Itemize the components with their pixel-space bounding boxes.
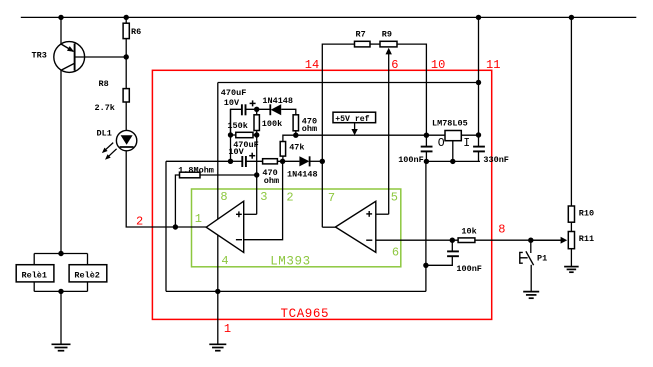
wire cap C1 left lead: [231, 109, 242, 135]
wire P1 top lead: [530, 240, 532, 253]
op-amp U1B (LM393 2nd): [335, 201, 375, 252]
wire caps bottom tee: [426, 160, 480, 162]
wire DL1 to pin 2: [126, 151, 206, 227]
node collector / relays top: [58, 251, 63, 256]
wire reference row: [166, 160, 231, 162]
svg-text:1: 1: [224, 322, 231, 336]
svg-text:6: 6: [392, 246, 399, 260]
svg-text:8: 8: [220, 190, 227, 204]
node 150k left / C1: [228, 132, 233, 137]
wire 47k top corner: [283, 135, 445, 141]
wire Rele1 bottom lead: [33, 282, 35, 292]
ground (P1): [523, 291, 539, 293]
wire 47k bottom: [282, 156, 284, 161]
node relays bottom: [58, 289, 63, 294]
wire ground rail: [166, 290, 426, 292]
wire 150k right lead: [253, 134, 257, 136]
node 100nF C5 top: [450, 238, 455, 243]
+5V ref box: [333, 112, 376, 123]
wire op2 output to pin 7: [322, 226, 335, 228]
svg-text:1N4148: 1N4148: [262, 96, 293, 106]
R11 wiper arrow: [531, 239, 561, 241]
svg-text:47k: 47k: [289, 143, 304, 153]
wire pin 11 vertical: [478, 17, 480, 135]
wire 470ohm bottom: [295, 131, 297, 135]
ground (relays): [52, 343, 71, 345]
wire pin14 top corner: [322, 44, 354, 227]
svg-text:10: 10: [431, 58, 445, 72]
svg-text:I: I: [463, 137, 470, 150]
capacitor C1 470uF: [241, 104, 243, 115]
wire gnd left vertical: [165, 161, 167, 291]
node ground rail / pin 4: [215, 289, 220, 294]
node 150k/100k/pin3: [254, 132, 259, 137]
svg-text:4: 4: [221, 254, 228, 268]
+5V ref arrow: [354, 123, 356, 131]
svg-text:330nF: 330nF: [483, 155, 509, 165]
relay Rele1: [16, 265, 54, 282]
wire pin 4 vertical: [217, 235, 219, 344]
C2 plus sign: [249, 155, 255, 157]
wire op2 minus / pin 6 out: [376, 239, 561, 241]
svg-text:O: O: [438, 137, 445, 150]
wire C5 bottom lead: [426, 256, 452, 265]
ground (R11): [564, 266, 579, 268]
C1 plus sign: [250, 102, 256, 104]
wire vcc inner horizontal: [218, 82, 479, 84]
svg-text:LM393: LM393: [270, 254, 311, 268]
wire C3 top lead: [425, 135, 427, 147]
svg-text:TR3: TR3: [32, 50, 47, 60]
node 1.8M / pin 3 wire: [254, 172, 259, 177]
wire TR3 emitter: [60, 17, 62, 44]
transistor TR3: [54, 42, 85, 73]
wire pin 3 vertical: [256, 135, 258, 214]
diode D1 1N4148: [269, 104, 271, 115]
svg-text:LM78L05: LM78L05: [432, 119, 468, 129]
wire TR3 collector: [60, 70, 62, 254]
svg-text:R6: R6: [131, 27, 141, 37]
node 470ohm bottom / +5V row: [293, 133, 298, 138]
svg-text:DL1: DL1: [97, 129, 112, 139]
wire 100k top lead: [256, 109, 258, 115]
wire Rele2 bottom lead: [87, 282, 89, 292]
wire R6 bottom to R8: [125, 39, 127, 89]
capacitor C5 100nF: [447, 250, 459, 252]
wire 470ohm to 47k node: [277, 160, 299, 162]
wire U2 gnd lead: [452, 141, 454, 162]
wire TR3 base: [75, 56, 126, 58]
LED DL1: [116, 130, 136, 150]
node C3 bottom: [424, 159, 429, 164]
svg-text:2: 2: [286, 190, 293, 204]
svg-text:11: 11: [486, 58, 500, 72]
resistor 47k: [280, 142, 285, 157]
diode D2 1N4148: [299, 156, 309, 166]
resistor 100k: [254, 115, 259, 131]
wire C5 top lead: [451, 240, 453, 251]
svg-text:14: 14: [305, 58, 319, 72]
node vcc inner / pin11: [476, 80, 481, 85]
wire R8 to DL1: [125, 102, 127, 131]
svg-text:3: 3: [260, 190, 267, 204]
svg-text:R11: R11: [579, 234, 594, 244]
node +5V row / pin 10: [424, 133, 429, 138]
potentiometer R11: [568, 232, 574, 249]
svg-text:R9: R9: [382, 30, 392, 40]
resistor R8: [123, 89, 129, 102]
wire C1-C2 vertical: [230, 109, 232, 161]
wire R10-R11: [570, 222, 572, 231]
svg-text:100nF: 100nF: [398, 155, 424, 165]
wire +12V top rail: [21, 16, 637, 18]
wire R10 top: [570, 17, 572, 206]
resistor 10k: [458, 238, 475, 243]
svg-text:R7: R7: [356, 30, 366, 40]
wire Rele1 top lead: [33, 254, 35, 265]
potentiometer R9: [380, 41, 397, 47]
svg-text:P1: P1: [537, 254, 547, 264]
node C2 left: [228, 159, 233, 164]
svg-text:1.8Mohm: 1.8Mohm: [178, 166, 214, 176]
svg-text:10V: 10V: [224, 98, 240, 108]
capacitor C3 100nF: [421, 146, 433, 148]
node 47k bottom / pin 2: [280, 159, 285, 164]
wire 150k left lead: [231, 134, 236, 136]
svg-text:ohm: ohm: [264, 176, 279, 186]
node P1 tap: [528, 238, 533, 243]
wire C3 bottom lead: [425, 151, 427, 161]
svg-text:470uF: 470uF: [221, 88, 247, 98]
resistor R7: [355, 41, 371, 47]
node U2 input / pin 11 net: [476, 132, 481, 137]
ground (pin 4 / TCA965 pin 1): [209, 343, 226, 345]
relay Rele2: [69, 265, 107, 282]
node U2 gnd: [450, 159, 455, 164]
svg-text:100k: 100k: [262, 119, 282, 129]
svg-text:Relè2: Relè2: [74, 271, 100, 281]
wire cap C1 right to diode: [246, 108, 270, 110]
capacitor C2 470uF: [241, 156, 243, 167]
wire R11 bottom: [570, 249, 572, 267]
wire C4 top lead: [478, 135, 480, 147]
svg-text:7: 7: [328, 191, 335, 205]
node 1.8M / op1 output: [173, 224, 178, 229]
IC outline LM393 (green box): [192, 189, 401, 267]
node top rail / TR3 emitter: [58, 15, 63, 20]
svg-text:ohm: ohm: [302, 124, 317, 134]
wire 100k bottom: [256, 131, 258, 136]
svg-text:1: 1: [195, 212, 202, 226]
svg-text:2.7k: 2.7k: [95, 103, 115, 113]
svg-text:R10: R10: [579, 208, 594, 218]
wire pin 8 vertical: [217, 83, 219, 220]
wire D2 to pin7 wire: [310, 160, 323, 162]
capacitor C4 330nF: [473, 146, 485, 148]
wire op1 minus input: [244, 161, 283, 239]
svg-text:10V: 10V: [228, 147, 244, 157]
wire diode D1 to 470ohm: [281, 109, 296, 115]
resistor 470ohm (horizontal): [263, 159, 278, 164]
wire R7-R9: [370, 43, 380, 45]
svg-text:TCA965: TCA965: [281, 307, 330, 321]
wire relay top tee: [34, 253, 87, 255]
svg-text:1N4148: 1N4148: [287, 169, 318, 179]
resistor 1.8Mohm: [180, 172, 201, 178]
wire C4 bottom lead: [478, 151, 480, 161]
wire Rele2 top lead: [87, 254, 89, 265]
node 100k top: [254, 107, 259, 112]
svg-text:+5V ref: +5V ref: [335, 114, 369, 124]
svg-text:Relè1: Relè1: [22, 271, 48, 281]
wire 1.8M left lead: [175, 175, 179, 227]
resistor R10: [568, 206, 574, 222]
wire op2 plus input: [376, 213, 389, 215]
wire relays to ground: [60, 291, 62, 344]
svg-text:10k: 10k: [461, 227, 476, 237]
wire mid ground vertical: [425, 161, 427, 291]
node reference row / pin7 wire: [320, 159, 325, 164]
wire relay bottom tee: [34, 290, 87, 292]
pushbutton P1: [526, 251, 534, 265]
node C5 / gnd vertical: [423, 263, 428, 268]
node TR3 base / R6-R8: [124, 54, 129, 59]
op-amp U1A (LM393 1st): [206, 201, 244, 252]
svg-text:8: 8: [498, 223, 505, 237]
R9 wiper arrow: [386, 48, 392, 55]
regulator U2 LM78L05: [445, 131, 461, 141]
node top rail / pin 11: [476, 15, 481, 20]
svg-text:5: 5: [391, 190, 398, 204]
node top rail / R6: [124, 15, 129, 20]
svg-text:2: 2: [136, 215, 143, 229]
resistor R6: [123, 23, 129, 38]
resistor 150k: [236, 132, 253, 137]
svg-text:R8: R8: [99, 79, 109, 89]
resistor 470ohm (vertical): [293, 115, 298, 131]
svg-text:6: 6: [391, 58, 398, 72]
wire C2 to 470ohm: [246, 160, 262, 162]
IC outline TCA965 (red box): [152, 70, 491, 319]
wire R6 top: [125, 17, 127, 23]
svg-text:100nF: 100nF: [456, 264, 482, 274]
wire R9 right to pin10: [397, 44, 426, 135]
wire into C2: [231, 160, 243, 162]
wire P1 bottom lead: [530, 265, 532, 291]
wire op1 plus input: [244, 213, 257, 215]
wire 1.8M right lead: [200, 174, 257, 176]
wire U2 input lead: [461, 134, 478, 136]
node top rail / R10: [569, 15, 574, 20]
